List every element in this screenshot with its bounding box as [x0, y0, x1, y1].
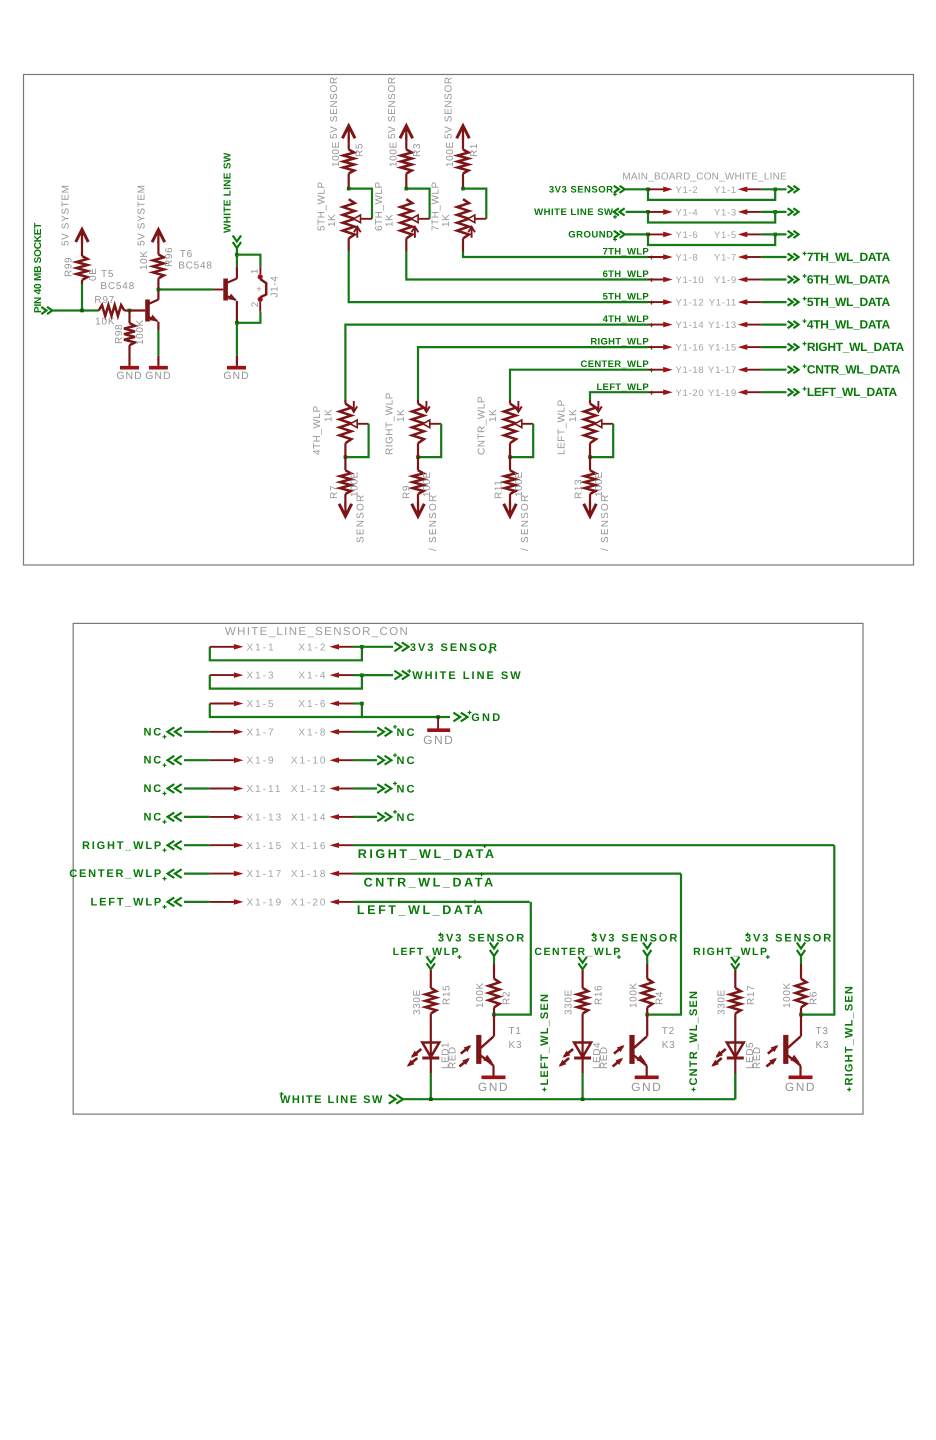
net label CNTR_WL_SEN — [688, 990, 700, 1092]
wire Y1-13 to 4TH_WL_DATA — [761, 321, 798, 328]
svg-text:R7: R7 — [329, 485, 340, 499]
svg-text:X1-14: X1-14 — [291, 812, 328, 823]
wire left into X1-17 — [184, 872, 210, 874]
svg-text:Y1-5: Y1-5 — [714, 230, 737, 241]
svg-text:GND: GND — [785, 1080, 816, 1094]
pin Y1-18 — [648, 365, 704, 376]
net label LEFT_WLP — [393, 946, 462, 969]
phototransistor T1 K3 — [459, 1015, 522, 1067]
wire to ground symbol — [437, 717, 439, 730]
wire left into X1-15 — [184, 844, 210, 846]
ground GND (T6) — [223, 368, 249, 382]
wire 3V3 SENSOR into pin Y1-2 — [626, 188, 650, 192]
svg-text:Y1-11: Y1-11 — [709, 298, 737, 309]
ground GND (T5) — [145, 368, 171, 382]
pin Y1-8 — [648, 253, 698, 264]
wire input to R97 — [52, 309, 99, 311]
ground GND (R98) — [116, 368, 142, 382]
power 5V SENSOR arrow (R3) — [387, 76, 413, 149]
svg-text:R1: R1 — [469, 143, 480, 157]
wire X1-8 to NC — [353, 727, 391, 736]
svg-text:Y1-1: Y1-1 — [714, 185, 737, 196]
phototransistor T3 K3 — [766, 1015, 829, 1067]
power / SENSOR arrow down — [584, 494, 611, 551]
pin Y1-13 — [708, 320, 761, 331]
svg-text:Y1-2: Y1-2 — [676, 185, 699, 196]
resistor R96 10K — [139, 247, 175, 290]
svg-text:LEFT_WLP: LEFT_WLP — [91, 896, 163, 908]
net label 6TH_WL_DATA — [803, 273, 891, 287]
wire X1-16 to RIGHT_WL_DATA — [353, 844, 834, 846]
svg-text:GND: GND — [478, 1080, 509, 1094]
svg-text:/ SENSOR: / SENSOR — [428, 494, 439, 551]
bracket wire X1-5 to X1-6 — [210, 702, 364, 717]
wire 4TH_WLP from connector — [345, 325, 648, 404]
svg-text:100E: 100E — [514, 471, 525, 497]
svg-text:CNTR_WL_DATA: CNTR_WL_DATA — [807, 363, 901, 377]
svg-text:7TH_WLP: 7TH_WLP — [431, 181, 442, 231]
trimmer 7TH_WLP 1K — [431, 181, 487, 238]
svg-text:PIN 40 MB SOCKET: PIN 40 MB SOCKET — [33, 223, 44, 313]
svg-text:X1-20: X1-20 — [291, 897, 328, 908]
ground GND (T3) — [785, 1077, 816, 1094]
resistor R11 100E — [494, 443, 525, 507]
net label 3V3 SENSOR (right) — [410, 642, 499, 654]
svg-text:R96: R96 — [164, 247, 175, 267]
pin X1-8 — [298, 727, 353, 738]
svg-text:RIGHT_WLP: RIGHT_WLP — [385, 392, 396, 455]
pin X1-12 — [291, 784, 353, 795]
pin X1-5 — [210, 699, 276, 710]
svg-text:NC: NC — [397, 727, 417, 739]
svg-text:1K: 1K — [441, 214, 452, 227]
svg-text:7TH_WL_DATA: 7TH_WL_DATA — [807, 250, 891, 264]
pin X1-16 — [291, 841, 353, 852]
resistor R98 100K — [114, 311, 146, 366]
svg-text:R4: R4 — [655, 991, 666, 1005]
net label NC (left) — [144, 726, 182, 739]
loop wire Y1-2 to Y1-1 — [648, 188, 777, 200]
ground GND (connector) — [423, 730, 454, 747]
wire left into X1-13 — [184, 816, 210, 818]
net label NC (right) — [393, 782, 416, 796]
svg-text:X1-11: X1-11 — [247, 784, 283, 795]
pin X1-17 — [210, 869, 283, 880]
svg-text:100E: 100E — [594, 471, 605, 497]
wire X1-2 out right — [353, 642, 409, 651]
svg-text:100E: 100E — [445, 141, 456, 167]
svg-text:Y1-13: Y1-13 — [708, 320, 737, 331]
net label RIGHT_WLP — [693, 946, 770, 969]
svg-text:SENSOR: SENSOR — [356, 494, 367, 543]
wire 6TH_WLP to connector — [406, 238, 648, 279]
svg-text:6TH_WLP: 6TH_WLP — [603, 269, 650, 280]
net label GND (right) — [468, 711, 503, 725]
svg-text:/ SENSOR: / SENSOR — [600, 494, 611, 551]
svg-text:NC: NC — [397, 755, 417, 767]
svg-text:T5: T5 — [101, 269, 114, 280]
svg-text:LEFT_WLP: LEFT_WLP — [557, 399, 568, 455]
wire LEFT_WL_SEN data — [492, 902, 531, 1016]
net label NC (left) — [144, 783, 182, 796]
svg-text:X1-8: X1-8 — [298, 727, 327, 738]
trimmer 6TH_WLP 1K — [374, 181, 430, 238]
svg-text:R5: R5 — [355, 143, 366, 157]
svg-text:Y1-16: Y1-16 — [676, 343, 705, 354]
net label NC (right) — [393, 753, 416, 767]
pin Y1-3 — [714, 207, 761, 218]
wire CNTR_WLP from connector — [510, 370, 648, 404]
wire J1-4 pin2 to emitter — [237, 302, 261, 323]
wire RIGHT_WL_SEN data — [799, 845, 834, 1016]
svg-text:NC: NC — [144, 726, 164, 738]
resistor R1 100E — [445, 141, 480, 188]
svg-text:WHITE LINE SW: WHITE LINE SW — [534, 207, 613, 218]
wire T3 emitter to GND — [799, 1066, 801, 1077]
LED LED1 RED — [407, 1042, 459, 1069]
pin Y1-20 — [648, 388, 704, 399]
wire WHITE LINE SW into pin Y1-4 — [626, 210, 650, 214]
svg-text:T6: T6 — [180, 249, 193, 260]
svg-text:10K: 10K — [95, 317, 115, 328]
svg-text:WHITE LINE SW: WHITE LINE SW — [280, 1094, 384, 1106]
wire R97 to T5 base — [124, 309, 145, 313]
svg-text:WHITE LINE SW: WHITE LINE SW — [222, 152, 233, 233]
svg-text:330E: 330E — [412, 989, 423, 1015]
resistor R9 100E — [402, 443, 433, 507]
pin Y1-15 — [708, 343, 761, 354]
wire 7TH_WLP to connector — [463, 238, 648, 257]
LED LED4 RED — [559, 1042, 611, 1069]
power 5V SENSOR arrow (R5) — [329, 76, 355, 149]
svg-text:X1-5: X1-5 — [247, 699, 276, 710]
connector title WHITE_LINE_SENSOR_CON — [225, 626, 409, 638]
svg-text:Y1-20: Y1-20 — [676, 388, 705, 399]
pin X1-15 — [210, 841, 283, 852]
power 5V SYSTEM arrow (R96) — [137, 184, 165, 254]
svg-text:Y1-7: Y1-7 — [714, 253, 737, 264]
svg-text:R97: R97 — [94, 295, 115, 306]
svg-text:100K: 100K — [782, 982, 793, 1008]
svg-text:5V SENSOR: 5V SENSOR — [329, 76, 340, 139]
net label NC (right) — [393, 725, 416, 739]
pin Y1-16 — [648, 343, 704, 354]
svg-text:LEFT_WL_DATA: LEFT_WL_DATA — [357, 903, 486, 917]
pin Y1-7 — [714, 253, 761, 264]
net label RIGHT_WLP — [590, 337, 653, 350]
svg-text:K3: K3 — [509, 1040, 523, 1051]
pin X1-2 — [298, 642, 353, 653]
wire RIGHT_WLP from connector — [418, 347, 648, 404]
svg-text:X1-15: X1-15 — [247, 841, 284, 852]
svg-text:100E: 100E — [331, 141, 342, 167]
LED LED5 RED — [711, 1042, 763, 1069]
svg-text:R6: R6 — [809, 991, 820, 1005]
svg-text:NC: NC — [144, 755, 164, 767]
net label LEFT_WL_DATA — [803, 385, 898, 399]
svg-text:LEFT_WL_DATA: LEFT_WL_DATA — [807, 385, 898, 399]
pin X1-20 — [291, 897, 353, 908]
net label CENTER_WLP — [534, 946, 621, 969]
svg-text:GND: GND — [471, 712, 502, 724]
svg-text:X1-7: X1-7 — [247, 727, 276, 738]
pin Y1-2 — [648, 185, 698, 196]
resistor R5 100E — [331, 141, 366, 188]
svg-text:X1-2: X1-2 — [298, 642, 327, 653]
svg-text:5TH_WL_DATA: 5TH_WL_DATA — [807, 295, 891, 309]
svg-text:NC: NC — [144, 783, 164, 795]
net label 3V3 SENSOR (left) — [549, 184, 625, 196]
svg-text:RIGHT_WL_SEN: RIGHT_WL_SEN — [844, 985, 856, 1086]
pin Y1-10 — [648, 275, 704, 286]
svg-text:5V SYSTEM: 5V SYSTEM — [61, 184, 72, 246]
svg-text:Y1-4: Y1-4 — [676, 207, 699, 218]
svg-text:Y1-6: Y1-6 — [676, 230, 699, 241]
svg-text:10K: 10K — [139, 250, 150, 270]
phototransistor T2 K3 — [613, 1015, 676, 1067]
wire left into X1-19 — [184, 901, 210, 903]
svg-text:WHITE LINE SW: WHITE LINE SW — [412, 670, 522, 682]
ground GND (T2) — [631, 1077, 662, 1094]
svg-text:X1-13: X1-13 — [247, 812, 284, 823]
resistor R7 100E — [329, 443, 360, 507]
pin X1-14 — [291, 812, 353, 823]
svg-text:5V SENSOR: 5V SENSOR — [387, 76, 398, 139]
wire LEFT_WLP from connector — [590, 392, 648, 403]
svg-text:GND: GND — [116, 370, 142, 382]
net label 6TH_WLP — [603, 269, 654, 282]
svg-text:330E: 330E — [716, 989, 727, 1015]
svg-text:RED: RED — [599, 1046, 610, 1069]
svg-text:100E: 100E — [422, 471, 433, 497]
label T6 BC548 — [178, 249, 213, 272]
svg-text:CNTR_WL_DATA: CNTR_WL_DATA — [364, 875, 496, 889]
wire 5TH_WLP to connector — [349, 238, 648, 302]
wire LED4 to switch bus — [581, 1059, 583, 1100]
svg-text:4TH_WL_DATA: 4TH_WL_DATA — [807, 318, 891, 332]
wire WHITE LINE SW down — [235, 248, 239, 257]
svg-text:T3: T3 — [816, 1026, 829, 1037]
svg-text:R9: R9 — [402, 485, 413, 499]
svg-text:5TH_WLP: 5TH_WLP — [603, 292, 650, 303]
net label RIGHT_WL_SEN — [844, 985, 856, 1092]
svg-text:CNTR_WL_SEN: CNTR_WL_SEN — [688, 990, 700, 1086]
pin X1-7 — [210, 727, 276, 738]
svg-text:X1-6: X1-6 — [298, 699, 327, 710]
svg-text:100E: 100E — [388, 141, 399, 167]
resistor R16 330E — [564, 970, 605, 1043]
svg-text:R13: R13 — [574, 479, 585, 499]
net label LEFT_WLP (left) — [91, 896, 182, 909]
svg-text:Y1-12: Y1-12 — [676, 298, 705, 309]
svg-text:100K: 100K — [628, 982, 639, 1008]
wire left into X1-9 — [184, 759, 210, 761]
svg-text:GND: GND — [223, 370, 249, 382]
svg-text:330E: 330E — [564, 989, 575, 1015]
trimmer 5TH_WLP 1K — [316, 181, 372, 238]
trimmer LEFT_WLP 1K — [557, 399, 614, 459]
net label LEFT_WLP — [596, 382, 653, 395]
wire X1-4 out right — [353, 671, 409, 680]
power SENSOR arrow down — [339, 494, 366, 543]
power 5V SYSTEM arrow (R99) — [61, 184, 89, 256]
net label WHITE LINE SW (left) — [534, 207, 625, 219]
wire T5 collector to T6 base — [158, 288, 223, 290]
trimmer RIGHT_WLP 1K — [385, 392, 442, 459]
trimmer 4TH_WLP 1K — [312, 401, 369, 459]
loop wire Y1-6 to Y1-5 — [648, 233, 777, 245]
svg-text:X1-10: X1-10 — [291, 756, 328, 767]
wire GROUND into pin Y1-6 — [626, 233, 650, 237]
svg-text:7TH_WLP: 7TH_WLP — [603, 247, 650, 258]
svg-text:Y1-14: Y1-14 — [676, 320, 705, 331]
net label RIGHT_WLP (left) — [82, 840, 182, 852]
connector title MAIN_BOARD_CON_WHITE_LINE — [622, 172, 787, 183]
wire CNTR_WL_SEN data — [645, 874, 681, 1017]
wire GND net — [353, 704, 468, 722]
bracket wire X1-1 to X1-2 — [210, 645, 364, 660]
svg-text:R3: R3 — [412, 143, 423, 157]
wire left into X1-7 — [184, 731, 210, 733]
net label CENTER_WLP — [581, 359, 654, 372]
svg-text:5V SYSTEM: 5V SYSTEM — [137, 184, 148, 246]
svg-text:R17: R17 — [746, 985, 757, 1005]
svg-text:GND: GND — [423, 733, 454, 747]
svg-text:4TH_WLP: 4TH_WLP — [603, 314, 650, 325]
net label LEFT_WL_DATA — [357, 900, 486, 917]
resistor R6 100K — [782, 957, 819, 1015]
net label 7TH_WL_DATA — [803, 250, 891, 264]
svg-text:1K: 1K — [396, 409, 407, 422]
pin X1-9 — [210, 756, 276, 767]
svg-text:CNTR_WLP: CNTR_WLP — [477, 396, 488, 455]
loop wire Y1-4 to Y1-3 — [648, 210, 777, 222]
svg-text:1K: 1K — [327, 214, 338, 227]
wire node to J1-4 pin1 — [237, 255, 261, 275]
pin X1-11 — [210, 784, 283, 795]
power 3V3 SENSOR (R2) — [438, 933, 526, 957]
net label NC (left) — [144, 755, 182, 768]
svg-text:K3: K3 — [662, 1040, 676, 1051]
svg-text:100K: 100K — [135, 319, 146, 345]
wire X1-10 to NC — [353, 756, 391, 765]
trimmer CNTR_WLP 1K — [477, 396, 534, 459]
emitter wire T5 to GND — [157, 322, 159, 366]
power / SENSOR arrow down — [412, 494, 439, 551]
svg-text:X1-17: X1-17 — [247, 869, 284, 880]
pin X1-3 — [210, 671, 276, 682]
svg-text:3V3 SENSOR: 3V3 SENSOR — [549, 184, 614, 195]
net label 4TH_WL_DATA — [803, 318, 891, 332]
svg-text:R98: R98 — [114, 324, 125, 344]
svg-text:NC: NC — [397, 784, 417, 796]
emitter wire T6 to GND — [235, 301, 239, 366]
svg-text:0E: 0E — [88, 268, 99, 281]
net label CENTER_WLP (left) — [69, 868, 181, 881]
svg-text:R16: R16 — [593, 985, 604, 1005]
pin X1-10 — [291, 756, 353, 767]
wire X1-14 to NC — [353, 813, 391, 822]
svg-text:RIGHT_WL_DATA: RIGHT_WL_DATA — [358, 847, 497, 861]
net label NC (left) — [144, 811, 182, 824]
svg-text:T1: T1 — [509, 1026, 522, 1037]
svg-text:R11: R11 — [494, 480, 505, 499]
wire Y1-7 to 7TH_WL_DATA — [761, 253, 798, 260]
power 5V SENSOR arrow (R1) — [444, 76, 470, 149]
svg-text:Y1-10: Y1-10 — [676, 275, 705, 286]
net label 5TH_WL_DATA — [803, 295, 891, 309]
svg-text:K3: K3 — [816, 1040, 830, 1051]
svg-text:+: + — [256, 284, 262, 295]
resistor R13 100E — [574, 443, 605, 507]
svg-text:Y1-8: Y1-8 — [676, 253, 699, 264]
transistor T5 BC548 — [100, 269, 158, 322]
svg-text:GROUND: GROUND — [568, 229, 613, 240]
svg-text:NC: NC — [144, 811, 164, 823]
net label LEFT_WL_SEN — [539, 993, 551, 1092]
svg-text:NC: NC — [397, 812, 417, 824]
svg-text:3V3 SENSOR: 3V3 SENSOR — [438, 933, 526, 945]
svg-text:WHITE_LINE_SENSOR_CON: WHITE_LINE_SENSOR_CON — [225, 626, 409, 638]
svg-text:3V3 SENSOR: 3V3 SENSOR — [591, 933, 679, 945]
svg-text:X1-19: X1-19 — [247, 897, 284, 908]
resistor R2 100K — [475, 957, 512, 1015]
svg-text:6TH_WL_DATA: 6TH_WL_DATA — [807, 273, 891, 287]
transistor T6 BC548 — [223, 279, 237, 301]
wire Y1-1 out right — [761, 186, 798, 193]
svg-text:1K: 1K — [324, 409, 335, 422]
wire LED1 to switch bus — [430, 1059, 432, 1100]
svg-text:X1-3: X1-3 — [247, 671, 276, 682]
wire T5 collector node — [157, 288, 161, 300]
svg-text:BC548: BC548 — [100, 281, 135, 292]
net label WHITE LINE SW — [222, 152, 241, 248]
bracket wire X1-3 to X1-4 — [210, 673, 364, 688]
svg-text:X1-16: X1-16 — [291, 841, 328, 852]
svg-text:5V SENSOR: 5V SENSOR — [444, 76, 455, 139]
svg-text:Y1-15: Y1-15 — [708, 343, 737, 354]
net label RIGHT_WL_DATA — [803, 340, 905, 354]
wire T1 emitter to GND — [492, 1066, 494, 1077]
pin X1-1 — [210, 642, 276, 653]
svg-text:5TH_WLP: 5TH_WLP — [316, 181, 327, 231]
svg-text:1K: 1K — [568, 409, 579, 422]
svg-text:LEFT_WLP: LEFT_WLP — [393, 946, 460, 958]
net label PIN 40 MB SOCKET — [33, 223, 52, 314]
wire left into X1-11 — [184, 787, 210, 789]
svg-text:J1-4: J1-4 — [270, 276, 281, 298]
svg-text:X1-1: X1-1 — [247, 642, 276, 653]
wire R99 to input node — [80, 284, 84, 312]
svg-text:3V3 SENSOR: 3V3 SENSOR — [745, 933, 833, 945]
resistor R3 100E — [388, 141, 423, 188]
net label CNTR_WL_DATA — [803, 363, 901, 377]
svg-text:CENTER_WLP: CENTER_WLP — [534, 946, 621, 958]
pin X1-6 — [298, 699, 353, 710]
wire Y1-17 to CNTR_WL_DATA — [761, 366, 798, 373]
resistor R17 330E — [716, 970, 757, 1043]
wire T2 emitter to GND — [646, 1066, 648, 1077]
svg-text:Y1-3: Y1-3 — [714, 207, 737, 218]
wire Y1-9 to 6TH_WL_DATA — [761, 276, 798, 283]
net label 5TH_WLP — [603, 292, 654, 305]
svg-text:RIGHT_WL_DATA: RIGHT_WL_DATA — [807, 340, 905, 354]
pin Y1-11 — [709, 298, 762, 309]
wire X1-20 to LEFT_WL_DATA — [353, 901, 530, 903]
resistor R4 100K — [628, 957, 665, 1015]
pin Y1-4 — [648, 207, 698, 218]
svg-text:Y1-19: Y1-19 — [708, 388, 737, 399]
